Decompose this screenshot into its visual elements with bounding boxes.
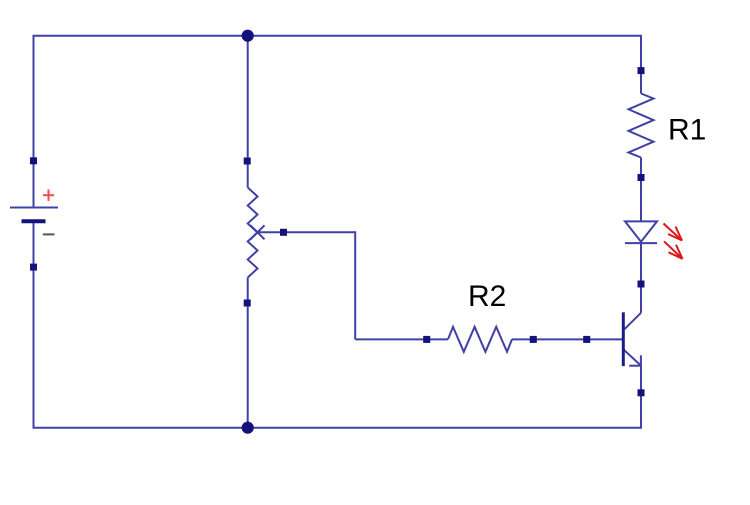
svg-text:R2: R2 xyxy=(468,280,506,313)
svg-text:R1: R1 xyxy=(668,114,706,147)
